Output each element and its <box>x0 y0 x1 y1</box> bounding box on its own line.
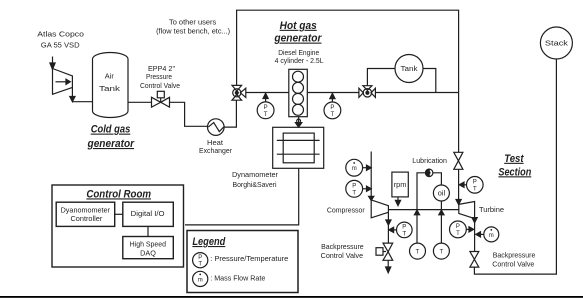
svg-text:T: T <box>440 249 444 255</box>
wire valve to engine inlet <box>246 92 289 94</box>
wire valve to heat exchanger <box>170 102 208 126</box>
instrument P/T turbine inlet <box>459 177 483 194</box>
label Turbine <box>479 205 504 214</box>
instrument mass flow compressor inlet <box>346 159 371 176</box>
title Test Section <box>498 153 531 179</box>
svg-text:P: P <box>352 184 356 190</box>
label Compressor <box>327 205 365 214</box>
svg-text:Borghi&Saveri: Borghi&Saveri <box>233 180 277 189</box>
svg-text:generator: generator <box>273 33 322 45</box>
svg-text:Control Valve: Control Valve <box>492 259 534 268</box>
label Atlas Copco GA 55 VSD <box>37 30 84 50</box>
rpm box <box>392 172 408 206</box>
air tank <box>93 53 129 118</box>
svg-text:P: P <box>264 105 268 111</box>
wire to other users (bypass riser) <box>237 10 459 152</box>
box Dyanomometer Controller <box>56 202 114 226</box>
label Backpressure Control Valve (right) <box>492 251 535 269</box>
svg-text:Hot gas: Hot gas <box>280 20 317 32</box>
svg-text:T: T <box>456 231 460 237</box>
heat exchanger <box>208 119 225 136</box>
svg-text:Turbine: Turbine <box>479 205 504 214</box>
backpressure control valve (turbine) <box>470 252 479 268</box>
svg-text:Control Room: Control Room <box>86 188 151 200</box>
svg-text:Legend: Legend <box>192 236 225 248</box>
svg-text:P: P <box>198 255 202 261</box>
3-way valve cold gas distribution <box>232 85 246 100</box>
instrument P/T engine outlet <box>324 93 341 119</box>
legend box <box>187 231 298 293</box>
wire lubrication left branch <box>417 173 426 244</box>
svg-text:High Speed: High Speed <box>130 240 166 249</box>
svg-text:T: T <box>331 112 335 118</box>
svg-text:: Mass Flow Rate: : Mass Flow Rate <box>210 273 265 282</box>
wire tank loop right <box>423 69 436 93</box>
label Backpressure Control Valve (left) <box>321 242 364 260</box>
wire compressor outlet to air tank <box>70 87 93 101</box>
wire tank loop left <box>367 69 395 86</box>
instrument P/T turbine outlet <box>450 221 474 238</box>
svg-text:Digital I/O: Digital I/O <box>131 209 165 218</box>
svg-text:(flow test bench, etc...): (flow test bench, etc...) <box>156 27 230 36</box>
compressor Atlas Copco <box>50 57 73 95</box>
legend symbol P/T <box>193 253 289 268</box>
wire dynamometer to control room <box>185 168 299 225</box>
svg-text:P: P <box>330 105 334 111</box>
instrument T oil left <box>410 243 426 259</box>
svg-text:4 cylinder - 2.5L: 4 cylinder - 2.5L <box>275 56 324 65</box>
wire heat exchanger to 3-way valve <box>224 100 236 127</box>
svg-text:rpm: rpm <box>394 180 407 189</box>
wire turbine outlet <box>474 219 476 252</box>
svg-text:Compressor: Compressor <box>327 205 365 214</box>
svg-text:Dynamometer: Dynamometer <box>232 170 279 179</box>
svg-text:T: T <box>352 190 356 196</box>
instrument P/T compressor inlet <box>346 180 371 197</box>
wire valve to junction <box>375 92 458 94</box>
svg-text:Backpressure: Backpressure <box>321 242 364 251</box>
instrument P/T engine inlet <box>257 93 274 119</box>
wire oil to bearing <box>440 201 442 243</box>
wire digital io to daq <box>147 226 149 236</box>
svg-text:Controller: Controller <box>71 214 103 223</box>
svg-text:m: m <box>489 233 494 239</box>
svg-text:P: P <box>402 225 406 231</box>
wire turbine exhaust to stack <box>474 59 556 274</box>
svg-text:Pressure: Pressure <box>146 72 172 81</box>
lubrication pump <box>426 169 433 176</box>
title Control Room <box>86 188 151 200</box>
title Cold gas generator <box>87 124 135 150</box>
turbine <box>459 202 475 219</box>
wire compressor vent <box>387 260 389 267</box>
svg-text:T: T <box>198 262 202 268</box>
wire controller to digital io <box>115 213 123 215</box>
wire engine outlet <box>307 92 359 94</box>
label Dynamometer Borghi&Saveri <box>232 170 279 189</box>
svg-text:Exchanger: Exchanger <box>199 146 232 155</box>
svg-text:Dyanomometer: Dyanomometer <box>61 205 111 214</box>
svg-text:Test: Test <box>504 153 525 165</box>
wire lubrication right branch <box>433 173 442 185</box>
stack <box>540 27 572 59</box>
diesel engine block <box>289 69 308 116</box>
backpressure control valve (compressor) <box>376 243 393 260</box>
wire valve to turbine <box>458 169 460 200</box>
coupling engine to dynamometer <box>295 117 301 128</box>
svg-text:Atlas Copco: Atlas Copco <box>37 30 84 39</box>
svg-text:GA 55 VSD: GA 55 VSD <box>41 41 80 50</box>
legend symbol mass flow <box>193 271 266 286</box>
svg-text:Backpressure: Backpressure <box>493 251 536 260</box>
wire compressor inlet (ambient) <box>370 152 372 200</box>
svg-text:Lubrication: Lubrication <box>412 156 447 165</box>
svg-text:Section: Section <box>498 166 531 178</box>
svg-text:DAQ: DAQ <box>140 249 156 258</box>
svg-text:Tank: Tank <box>99 84 120 93</box>
label Diesel Engine 4 cylinder - 2.5L <box>275 48 324 65</box>
compressor (test section) <box>369 196 389 218</box>
svg-text:: Pressure/Temperature: : Pressure/Temperature <box>210 254 288 263</box>
3-way valve engine exhaust <box>359 86 376 98</box>
wire compressor outlet <box>387 212 389 243</box>
svg-text:P: P <box>456 224 460 230</box>
svg-text:Stack: Stack <box>545 39 568 48</box>
valve EPP4 2" pressure control valve <box>152 91 170 107</box>
svg-text:T: T <box>264 112 268 118</box>
tank (exhaust surge tank) <box>395 55 423 83</box>
svg-text:Tank: Tank <box>401 64 418 73</box>
svg-text:Control Valve: Control Valve <box>321 251 364 260</box>
svg-text:oil: oil <box>438 189 446 198</box>
svg-text:m: m <box>352 166 357 172</box>
oil reservoir <box>433 185 449 201</box>
wire air tank to pressure control valve <box>128 101 152 103</box>
svg-text:Air: Air <box>105 72 115 81</box>
dynamometer Borghi&Saveri <box>273 127 324 168</box>
label To other users <box>156 18 230 36</box>
label Lubrication <box>412 156 447 165</box>
instrument P/T compressor outlet <box>389 222 412 238</box>
svg-text:T: T <box>473 186 477 192</box>
valve turbine inlet <box>454 152 463 169</box>
label Heat Exchanger <box>199 138 232 155</box>
svg-text:m: m <box>198 277 203 283</box>
svg-text:Control Valve: Control Valve <box>140 81 180 90</box>
svg-text:T: T <box>416 249 420 255</box>
svg-text:P: P <box>473 180 477 186</box>
svg-text:To other users: To other users <box>169 18 216 27</box>
svg-text:Cold gas: Cold gas <box>91 124 131 136</box>
box High Speed DAQ <box>123 237 174 259</box>
title Legend <box>192 236 225 248</box>
shaft compressor to turbine <box>388 209 458 211</box>
svg-text:T: T <box>402 232 406 238</box>
title Hot gas generator <box>273 20 322 45</box>
control room box <box>52 185 184 267</box>
instrument mass flow turbine outlet <box>476 227 499 242</box>
box Digital I/O <box>123 202 174 226</box>
instrument T oil right <box>433 243 449 259</box>
bottom border line <box>0 296 583 298</box>
svg-text:generator: generator <box>87 138 135 150</box>
label EPP4 2" Pressure Control Valve <box>140 64 180 90</box>
